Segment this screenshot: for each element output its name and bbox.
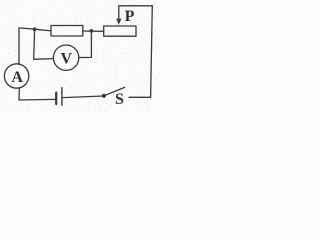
wire resistor to rheostat <box>83 30 104 32</box>
node junction right (voltmeter tap) <box>90 29 94 33</box>
svg-text:S: S <box>115 91 124 108</box>
wire switch contact to bottom-right corner <box>129 96 151 98</box>
rheostat wiper arrowhead <box>116 19 121 25</box>
wire ammeter bottom to battery <box>19 88 55 100</box>
node junction left (voltmeter tap) <box>33 27 37 31</box>
svg-text:P: P <box>125 8 135 25</box>
ammeter A (circle) <box>4 64 28 88</box>
wire voltmeter left branch <box>34 29 54 59</box>
wire top-left corner to resistor <box>19 28 51 65</box>
battery cell positive plate (long) <box>61 88 63 106</box>
svg-text:V: V <box>61 50 73 67</box>
switch S pivot <box>102 94 106 98</box>
resistor R (box) <box>51 26 83 37</box>
wire voltmeter right branch <box>79 31 92 57</box>
wire right vertical <box>151 6 153 98</box>
wire top-right to wiper <box>119 6 153 21</box>
wire battery to switch <box>63 96 104 98</box>
switch S blade <box>104 87 125 95</box>
voltmeter V (circle) <box>53 45 78 70</box>
rheostat track (box) <box>104 26 136 36</box>
battery cell negative plate (short) <box>55 93 57 104</box>
svg-text:A: A <box>11 69 23 86</box>
